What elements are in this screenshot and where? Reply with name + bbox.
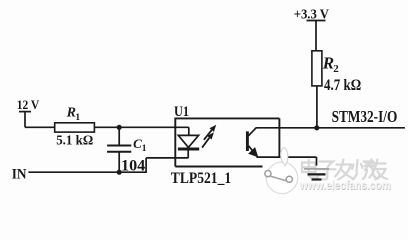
svg-text:1: 1 xyxy=(142,144,147,154)
svg-text:www.elecfans.com: www.elecfans.com xyxy=(299,180,391,192)
svg-text:IN: IN xyxy=(12,166,27,182)
svg-text:+3.3 V: +3.3 V xyxy=(294,8,329,23)
svg-text:STM32-I/O: STM32-I/O xyxy=(332,107,398,126)
svg-text:C: C xyxy=(133,136,142,151)
svg-text:4.7 kΩ: 4.7 kΩ xyxy=(324,77,361,94)
svg-text:5.1 kΩ: 5.1 kΩ xyxy=(56,134,93,149)
svg-text:R: R xyxy=(66,106,76,121)
svg-text:TLP521_1: TLP521_1 xyxy=(171,170,231,187)
svg-text:R: R xyxy=(322,54,334,73)
svg-text:104: 104 xyxy=(121,157,145,174)
svg-text:2: 2 xyxy=(333,63,339,75)
svg-text:U1: U1 xyxy=(174,104,189,120)
svg-text:12 V: 12 V xyxy=(17,97,40,112)
svg-text:1: 1 xyxy=(75,113,80,123)
